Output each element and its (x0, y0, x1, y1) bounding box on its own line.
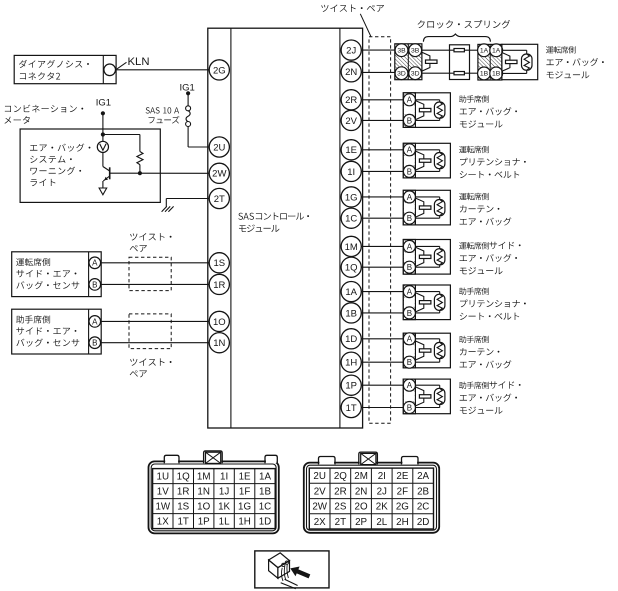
terminal B (89, 279, 101, 291)
terminal A (89, 257, 101, 269)
wire SAS to passenger air bag module (361, 99, 403, 101)
svg-text:2L: 2L (376, 517, 387, 528)
wire clock spring to connector 1A/1B (470, 49, 478, 51)
svg-text:IG1: IG1 (96, 98, 111, 109)
pin 2J (341, 40, 361, 60)
svg-text:1T: 1T (177, 517, 188, 528)
svg-text:2C: 2C (417, 502, 430, 513)
svg-text:1B: 1B (345, 308, 357, 319)
pin 1H (341, 352, 361, 372)
svg-text:1E: 1E (239, 472, 251, 483)
ground arrow (meter internal) (99, 188, 107, 195)
svg-text:2W: 2W (312, 502, 327, 513)
KLN leader line (117, 62, 127, 69)
svg-text:B: B (407, 214, 412, 223)
contact + shorting clip (passenger side air bag module) (416, 387, 424, 406)
terminal A (89, 316, 101, 328)
squib igniter (passenger air bag module) (434, 102, 445, 118)
svg-text:1M: 1M (345, 242, 358, 253)
svg-text:A: A (407, 335, 413, 344)
pin 2W (209, 163, 229, 183)
SAS control module U1 box (208, 28, 363, 428)
wire to squib (driver curtain air bag) (415, 196, 439, 198)
terminal B (passenger curtain air bag) (403, 356, 415, 368)
svg-text:1B: 1B (492, 71, 501, 78)
squib module: driver curtain air bag (403, 190, 450, 225)
pin 1O (209, 311, 229, 331)
svg-text:2D: 2D (417, 517, 430, 528)
svg-text:2A: 2A (417, 471, 429, 482)
pin 2T (209, 188, 229, 208)
label driver curtain air bag (459, 193, 489, 200)
wire pin 2T to ground (166, 198, 209, 200)
wire to squib (passenger curtain air bag) (415, 338, 439, 340)
pin 1C (341, 208, 361, 228)
pin grid 1-series (153, 469, 276, 529)
fuse label SAS 10 A (146, 107, 179, 113)
svg-text:1N: 1N (213, 338, 225, 349)
svg-text:2E: 2E (396, 471, 408, 482)
svg-text:1W: 1W (155, 502, 170, 513)
junction dot meter branch (101, 132, 105, 136)
terminal B (driver side air bag module) (403, 261, 415, 273)
wire SAS 2J to connector (361, 49, 395, 51)
svg-text:1M: 1M (197, 472, 211, 483)
svg-text:A: A (92, 259, 98, 268)
terminal A (passenger pretensioner seat belt) (403, 286, 415, 298)
svg-text:2P: 2P (355, 517, 367, 528)
resistor R1 (meter) (137, 152, 143, 165)
terminal B (driver pretensioner seat belt) (403, 165, 415, 177)
terminal B (driver curtain air bag) (403, 212, 415, 224)
svg-text:2T: 2T (335, 517, 346, 528)
svg-text:1P: 1P (345, 381, 357, 392)
svg-text:1F: 1F (239, 487, 250, 498)
terminal 3D pair (395, 67, 408, 80)
pin 1D (341, 329, 361, 349)
svg-text:B: B (407, 116, 412, 125)
wire SAS to driver side air bag module (361, 245, 403, 247)
squib igniter (passenger side air bag module) (434, 388, 445, 404)
contact + shorting clip (passenger curtain air bag) (416, 341, 424, 360)
svg-text:1N: 1N (197, 487, 210, 498)
pin 1S (209, 253, 229, 273)
svg-text:B: B (407, 358, 412, 367)
terminal B (passenger side air bag module) (403, 402, 415, 414)
diagnosis connector terminal (104, 64, 116, 76)
svg-text:A: A (407, 146, 413, 155)
svg-text:1A: 1A (345, 287, 357, 298)
connector key tab with X (360, 461, 377, 464)
svg-text:1T: 1T (346, 403, 357, 414)
clock spring brace (423, 34, 490, 42)
svg-text:1R: 1R (177, 487, 190, 498)
svg-text:1E: 1E (345, 145, 357, 156)
contact + shorting clip (driver pretensioner seat belt) (416, 151, 424, 170)
svg-text:1J: 1J (219, 487, 229, 498)
connector lock bump (266, 460, 277, 463)
svg-text:B: B (407, 263, 412, 272)
wire B to SAS (101, 283, 210, 285)
connector lock bump (165, 460, 178, 463)
svg-text:2X: 2X (314, 517, 326, 528)
svg-text:2R: 2R (334, 486, 347, 497)
diagnosis connector 2 box (14, 55, 116, 83)
svg-text:1S: 1S (213, 258, 225, 269)
svg-text:A: A (92, 317, 98, 326)
svg-text:1S: 1S (177, 502, 189, 513)
legend arrow (290, 567, 310, 579)
transistor Q1 (102, 153, 104, 167)
svg-text:3D: 3D (411, 70, 420, 77)
svg-text:2F: 2F (397, 486, 408, 497)
svg-text:2H: 2H (396, 517, 409, 528)
contact + shorting clip (passenger pretensioner seat belt) (416, 293, 424, 312)
wire SAS to driver pretensioner seat belt (361, 149, 403, 151)
contact + shorting clip (driver curtain air bag) (416, 198, 424, 217)
combination meter label (5, 105, 83, 113)
junction dot base node (138, 171, 142, 175)
svg-text:1A: 1A (492, 48, 501, 55)
contact + shorting clip (driver side air bag module) (416, 247, 424, 266)
twisted pair marker (driver sensor) (129, 257, 171, 290)
pin 2U (209, 137, 229, 157)
svg-text:2N: 2N (355, 486, 368, 497)
svg-text:1G: 1G (345, 192, 358, 203)
svg-text:1O: 1O (213, 317, 226, 328)
svg-text:B: B (407, 309, 412, 318)
air bag warning light label (30, 143, 90, 151)
terminal A (driver curtain air bag) (403, 191, 415, 203)
squib module: passenger side air bag module (403, 379, 450, 414)
wire KLN to pin 2G (116, 69, 210, 71)
driver air bag module box (502, 44, 538, 79)
svg-text:2N: 2N (345, 67, 357, 78)
legend box: view of connector (255, 551, 329, 588)
legend connector drawing (269, 553, 290, 568)
wire SAS to driver curtain air bag (361, 196, 403, 198)
svg-text:1H: 1H (238, 517, 251, 528)
terminal A (passenger side air bag module) (403, 379, 415, 391)
ground G1 chassis (162, 206, 167, 211)
svg-text:B: B (92, 339, 97, 348)
label driver pretensioner seat belt (459, 146, 489, 153)
pin 1B (341, 303, 361, 323)
svg-text:2U: 2U (213, 142, 225, 153)
svg-text:1K: 1K (218, 502, 230, 513)
svg-text:2I: 2I (378, 471, 386, 482)
combination meter box (20, 129, 160, 202)
terminal A (driver side air bag module) (403, 240, 415, 252)
SAS module right connector strip line (339, 28, 341, 428)
svg-text:KLN: KLN (128, 56, 150, 68)
label passenger side air bag module (459, 381, 521, 389)
wire B to SAS (101, 342, 210, 344)
wire A to SAS (101, 262, 210, 264)
wire IG1 to warning lamp (102, 113, 104, 141)
svg-text:2V: 2V (314, 486, 326, 497)
intermediate connector 3B/3D (395, 44, 422, 80)
wire SAS to passenger side air bag module (361, 384, 403, 386)
terminal 1A pair (478, 44, 491, 57)
terminal B (passenger pretensioner seat belt) (403, 307, 415, 319)
label passenger air bag module (459, 95, 489, 102)
svg-text:1B: 1B (259, 487, 271, 498)
twisted pair label top (321, 4, 384, 11)
運転席側 box (12, 252, 102, 297)
twisted pair marker (squib harness) (369, 37, 391, 423)
svg-text:1Q: 1Q (177, 472, 190, 483)
squib module: driver pretensioner seat belt (403, 143, 450, 178)
pin 2N (341, 62, 361, 82)
助手席側 box (12, 309, 102, 354)
terminal A (passenger air bag module) (403, 94, 415, 106)
svg-text:1D: 1D (259, 517, 272, 528)
svg-text:1P: 1P (198, 517, 210, 528)
pin 1E (341, 140, 361, 160)
svg-text:A: A (407, 288, 413, 297)
svg-text:2M: 2M (354, 471, 368, 482)
squib igniter (driver side air bag module) (434, 249, 445, 265)
svg-text:A: A (407, 381, 413, 390)
svg-text:A: A (407, 96, 413, 105)
wire A to SAS (101, 320, 210, 322)
svg-text:2B: 2B (417, 486, 429, 497)
contact + shorting clip (driver airbag) (502, 53, 510, 72)
label passenger curtain air bag (459, 336, 489, 343)
svg-text:1I: 1I (220, 472, 228, 483)
svg-text:B: B (407, 167, 412, 176)
svg-text:3D: 3D (397, 70, 406, 77)
svg-text:2G: 2G (396, 502, 409, 513)
wire SAS 2N to connector (361, 71, 395, 73)
clock spring body (450, 45, 470, 80)
svg-text:2S: 2S (334, 502, 346, 513)
clock spring contact bar top (454, 49, 464, 52)
SAS module label (238, 213, 309, 220)
pin 1I (341, 161, 361, 181)
wire to squib (driver pretensioner seat belt) (415, 149, 439, 151)
svg-text:1G: 1G (238, 502, 251, 513)
warning lamp L1 (97, 141, 108, 152)
terminal B (89, 337, 101, 349)
squib igniter (driver airbag) (522, 54, 533, 70)
pin 1A (341, 282, 361, 302)
connector face 1-series (149, 461, 279, 533)
wire to squib (passenger air bag module) (415, 99, 439, 101)
wire branch to resistor (103, 134, 140, 136)
connector lock bump (402, 461, 417, 464)
svg-text:2J: 2J (377, 486, 387, 497)
svg-text:2K: 2K (376, 502, 388, 513)
wire to squib (passenger side air bag module) (415, 384, 439, 386)
squib module: driver side air bag module (403, 240, 450, 275)
squib module: passenger curtain air bag (403, 333, 450, 368)
svg-text:1V: 1V (157, 487, 169, 498)
svg-text:1C: 1C (345, 214, 357, 225)
wire connector to clock spring (422, 49, 450, 51)
squib igniter (driver curtain air bag) (434, 200, 445, 216)
svg-text:2O: 2O (355, 502, 368, 513)
svg-text:3B: 3B (397, 47, 406, 54)
wire SAS to passenger curtain air bag (361, 338, 403, 340)
svg-text:1D: 1D (345, 334, 357, 345)
svg-text:2U: 2U (313, 471, 326, 482)
intermediate connector 1A/1B (478, 44, 502, 80)
wire to squib (driver side air bag module) (415, 245, 439, 247)
wire to squib (driver airbag) (502, 49, 527, 51)
pin 1M (341, 236, 361, 256)
svg-text:1U: 1U (157, 472, 170, 483)
pin 2V (341, 110, 361, 130)
pin grid 2-series (309, 468, 433, 529)
pin 1T (341, 397, 361, 417)
pin 2G (209, 60, 229, 80)
svg-text:2V: 2V (345, 116, 357, 127)
connector face 2-series (304, 463, 439, 533)
fuse F1 SAS 10A (186, 106, 191, 111)
svg-text:2G: 2G (213, 65, 226, 76)
pin 1G (341, 187, 361, 207)
squib module: passenger pretensioner seat belt (403, 285, 450, 320)
squib igniter (driver pretensioner seat belt) (434, 153, 445, 169)
terminal 1B pair (478, 67, 491, 80)
svg-text:1B: 1B (480, 71, 489, 78)
svg-text:1R: 1R (213, 280, 225, 291)
pin 1R (209, 274, 229, 294)
contact + shorting clip (clock spring in) (422, 52, 430, 71)
terminal A (driver pretensioner seat belt) (403, 144, 415, 156)
svg-text:1I: 1I (347, 167, 355, 178)
wire fuse to pin 2U (187, 127, 189, 148)
pin 1Q (341, 257, 361, 277)
wire base to pin 2W (110, 172, 210, 174)
twisted pair marker (passenger sensor) (129, 314, 171, 349)
svg-text:1X: 1X (157, 517, 169, 528)
svg-text:2J: 2J (346, 46, 356, 57)
svg-text:A: A (407, 242, 413, 251)
pin 1N (209, 333, 229, 353)
wire IG1 to fuse (187, 93, 189, 106)
squib module: passenger air bag module (403, 93, 450, 128)
terminal B (passenger air bag module) (403, 114, 415, 126)
SAS module left connector strip line (230, 28, 232, 428)
contact + shorting clip (passenger air bag module) (416, 101, 424, 120)
svg-text:2W: 2W (212, 169, 226, 180)
svg-text:1Q: 1Q (345, 263, 358, 274)
svg-text:1A: 1A (259, 472, 271, 483)
svg-text:2Q: 2Q (334, 471, 347, 482)
svg-text:1O: 1O (197, 502, 210, 513)
svg-text:A: A (407, 193, 413, 202)
clock spring contact bar bottom (454, 72, 464, 75)
pin 2R (341, 90, 361, 110)
label passenger pretensioner seat belt (459, 287, 489, 294)
svg-text:1A: 1A (480, 48, 489, 55)
svg-text:1L: 1L (219, 517, 230, 528)
clock spring label (418, 20, 511, 29)
legend wires (281, 583, 296, 589)
connector key tab with X (205, 460, 222, 463)
svg-text:3B: 3B (411, 47, 420, 54)
label driver side air bag module (459, 242, 521, 250)
driver air bag module label (546, 46, 576, 53)
terminal 3B pair (395, 44, 408, 57)
svg-text:1C: 1C (259, 502, 272, 513)
terminal A (passenger curtain air bag) (403, 333, 415, 345)
svg-text:1H: 1H (345, 358, 357, 369)
wire to squib (passenger pretensioner seat belt) (415, 291, 439, 293)
connector lock bump (319, 461, 334, 464)
svg-text:B: B (407, 403, 412, 412)
wire SAS to passenger pretensioner seat belt (361, 291, 403, 293)
svg-text:B: B (92, 280, 97, 289)
svg-text:2T: 2T (214, 194, 225, 205)
squib igniter (passenger curtain air bag) (434, 342, 445, 358)
svg-text:2R: 2R (345, 95, 357, 106)
squib igniter (passenger pretensioner seat belt) (434, 294, 445, 310)
pin 1P (341, 375, 361, 395)
